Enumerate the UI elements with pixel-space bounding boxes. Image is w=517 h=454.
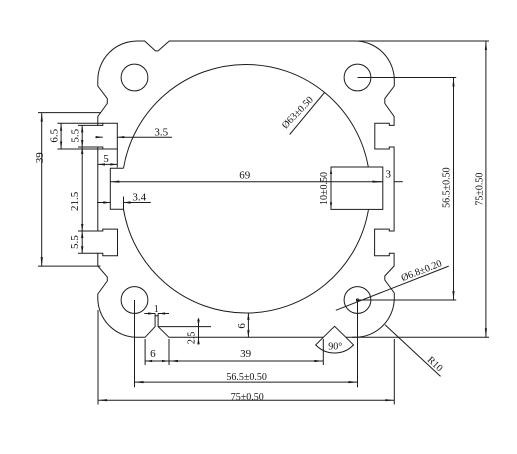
svg-text:3: 3 bbox=[385, 169, 391, 181]
dim 2.5 line bbox=[198, 318, 200, 344]
svg-text:5: 5 bbox=[103, 153, 109, 165]
left bore slot bbox=[110, 168, 123, 209]
dim 6.5 extension lines bbox=[57, 122, 102, 124]
plate outline bbox=[98, 41, 395, 337]
extension vertical for dim 39 bottom bbox=[322, 339, 324, 365]
dim 10 arrows on slot wall bbox=[330, 167, 332, 174]
hole centerline top-right bbox=[358, 77, 457, 79]
hole centerline bottom-right horizontal bbox=[358, 299, 457, 301]
dim 3.4 left arrow line bbox=[97, 202, 110, 204]
svg-text:6: 6 bbox=[150, 348, 156, 360]
leader O6.8 bbox=[336, 266, 449, 310]
leader R10 bbox=[385, 325, 441, 377]
dim 5.5 upper arrows bbox=[81, 125, 83, 132]
right edge extension bottom bbox=[393, 339, 395, 405]
dim 56.5 right line bbox=[453, 78, 455, 301]
svg-text:56.5±0.50: 56.5±0.50 bbox=[441, 167, 452, 208]
svg-text:3.5: 3.5 bbox=[154, 126, 168, 138]
dim 75 bottom line bbox=[98, 399, 394, 401]
svg-text:56.5±0.50: 56.5±0.50 bbox=[226, 372, 267, 383]
svg-text:6.5: 6.5 bbox=[49, 128, 61, 142]
corner hole bottom-left O6.8 bbox=[121, 287, 148, 314]
svg-text:75±0.50: 75±0.50 bbox=[231, 392, 264, 403]
right bore slot rectangle bbox=[331, 167, 383, 209]
dim 6 vertical line bbox=[247, 313, 249, 337]
dim 39 extension lines bbox=[38, 112, 101, 114]
hole extension bottom-left vertical bbox=[134, 300, 136, 387]
dim 75 right line bbox=[485, 41, 487, 337]
dim 2.5 extension line bbox=[158, 326, 211, 328]
bottom edge extension right bbox=[352, 336, 489, 338]
notch extension verticals for dim 6 bbox=[144, 339, 146, 365]
dim 3.5 left arrow line bbox=[95, 136, 103, 138]
svg-text:90°: 90° bbox=[328, 342, 342, 353]
dim 1 arrow lines bbox=[144, 313, 155, 315]
svg-text:2.5: 2.5 bbox=[187, 332, 198, 345]
svg-text:5.5: 5.5 bbox=[69, 235, 81, 249]
svg-text:6: 6 bbox=[236, 323, 248, 329]
dim 39 bottom line bbox=[169, 360, 323, 362]
dim 5 extension line bbox=[116, 149, 118, 168]
angle 90 arc bbox=[316, 345, 354, 353]
dim 56.5 bottom line bbox=[135, 381, 358, 383]
slot wall extensions for dim 1 bbox=[154, 314, 156, 316]
dim 5 line bbox=[98, 163, 117, 165]
dim 3.4 tick bbox=[123, 197, 125, 211]
central bore circle O63 upper arc bbox=[124, 64, 369, 168]
dim 21.5 arrows bbox=[81, 147, 83, 154]
dim 5.5 lower arrows bbox=[81, 231, 83, 238]
hole extension bottom-right vertical bbox=[357, 300, 359, 387]
dim 6 bottom line bbox=[145, 360, 169, 362]
corner hole top-left O6.8 bbox=[121, 64, 148, 91]
dim 3.5 leader line bbox=[117, 136, 172, 138]
corner hole bottom-right O6.8 bbox=[344, 287, 371, 314]
corner hole top-right O6.8 bbox=[344, 64, 371, 91]
dim 3 arrow lines bbox=[375, 181, 383, 183]
dim chain line 5.5-21.5-5.5 bbox=[81, 125, 83, 253]
dim 5.5 upper extension lines bbox=[78, 124, 98, 126]
svg-text:39: 39 bbox=[34, 152, 46, 164]
leader O63 bbox=[290, 93, 325, 135]
svg-text:1: 1 bbox=[154, 304, 159, 315]
dim 39 line bbox=[41, 113, 43, 267]
svg-text:10±0.50: 10±0.50 bbox=[319, 172, 330, 205]
angle 90 side extensions bbox=[315, 337, 323, 345]
center mark bottom-right hole bbox=[356, 299, 358, 301]
dim 6.5 line bbox=[60, 123, 62, 149]
dim 3.4 leader line bbox=[124, 202, 151, 204]
svg-text:69: 69 bbox=[239, 169, 251, 181]
left edge extension bottom bbox=[97, 310, 99, 405]
svg-text:21.5: 21.5 bbox=[69, 191, 81, 211]
dim 69 line bbox=[110, 181, 381, 183]
svg-text:5.5: 5.5 bbox=[70, 128, 82, 142]
svg-text:3.4: 3.4 bbox=[132, 191, 146, 203]
top edge extension right bbox=[358, 40, 489, 42]
svg-text:75±0.50: 75±0.50 bbox=[474, 173, 485, 206]
central bore circle O63 lower arc bbox=[124, 209, 369, 313]
dim 5.5 lower extension lines bbox=[78, 230, 98, 232]
svg-text:39: 39 bbox=[240, 348, 252, 360]
